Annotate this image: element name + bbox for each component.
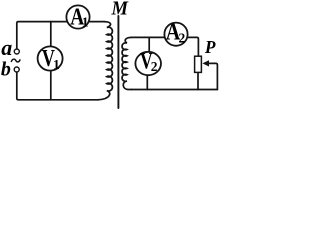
secondary bottom wire [132, 89, 218, 91]
wire V1 top stem [50, 22, 52, 46]
transformer core M [117, 16, 119, 108]
terminal b (circle) [14, 67, 19, 72]
ammeter A2 circle [164, 23, 187, 46]
svg-text:b: b [1, 58, 11, 80]
AC source tilde between a and b [11, 59, 20, 62]
svg-text:a: a [1, 35, 12, 60]
wire from terminal b down and bottom wire to transformer [17, 73, 98, 100]
wire V2 bottom stem [146, 76, 148, 90]
secondary top wire [132, 37, 199, 55]
svg-text:M: M [111, 0, 129, 20]
rheostat R (box) [195, 56, 202, 72]
voltmeter V2 circle [135, 52, 161, 75]
terminal a (circle) [14, 49, 19, 54]
svg-text:2: 2 [179, 31, 186, 46]
svg-text:P: P [204, 37, 216, 57]
wire from terminal a up and top wire to transformer [17, 22, 104, 49]
rheostat bottom lead [197, 73, 199, 90]
ammeter A1 circle [66, 5, 89, 28]
rheostat slider lead and right-side wire [208, 63, 217, 89]
svg-text:1: 1 [53, 57, 60, 72]
svg-text:1: 1 [82, 15, 89, 30]
primary coil winding [98, 22, 112, 100]
rheostat slider arrow head [202, 60, 209, 66]
secondary coil winding [122, 37, 131, 89]
wire V1 bottom stem [50, 71, 52, 99]
wire V2 top stem [148, 37, 150, 51]
voltmeter V1 circle [38, 46, 63, 70]
svg-text:2: 2 [151, 59, 158, 74]
